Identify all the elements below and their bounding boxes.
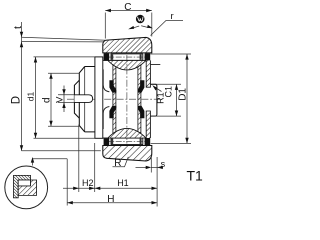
svg-text:H2: H2 [82,178,94,188]
ring corner hatched [18,180,36,195]
seal rubber zigzag [14,175,31,197]
dimension V [55,86,75,113]
svg-text:D1: D1 [177,88,188,101]
taper line lower [22,41,104,43]
inner ring right wall [138,65,141,134]
svg-text:D: D [10,96,22,104]
dimension d [41,73,79,126]
seal lip streak top-right [138,80,145,92]
seal bottom-left [104,138,110,146]
t dimension [12,22,24,52]
seal lip streak bottom-left [109,106,116,118]
label R with leader [113,157,129,169]
svg-text:t: t [12,26,24,29]
horizontal axis centre line [67,98,160,100]
svg-text:C: C [124,2,131,13]
dimension H [67,194,157,205]
inner ring lower raceway [108,128,146,138]
needle roller top [105,54,149,60]
dimension D [10,52,101,151]
extension lines H row [66,159,68,206]
vertical centre line [126,55,128,144]
dimension d1 [25,57,95,138]
shoulder line right [151,64,161,66]
label r with leader [151,11,184,36]
lubrication arrows [128,25,153,30]
svg-text:T1: T1 [187,168,204,184]
dimension D1 [150,54,191,143]
raceway edge lines [103,60,108,138]
seal carrier J top-left [103,69,109,91]
seal lip streak bottom-right [138,106,145,118]
right rib washer bottom [146,111,150,138]
grease hole V [74,95,92,103]
outer ring top dome [103,37,152,53]
dimension s [136,156,166,173]
label R1 with leader [152,85,165,104]
detail callout arrow [31,157,67,166]
svg-text:H: H [107,194,114,205]
svg-text:s: s [161,159,166,169]
svg-text:V: V [55,96,66,103]
taper line upper [22,37,107,40]
svg-text:H1: H1 [117,178,129,188]
outer ring bottom dome [103,146,152,162]
inner ring upper raceway (sagging arc region) [108,60,146,70]
cylinder d [85,67,95,132]
svg-text:C1: C1 [163,86,173,98]
inner ring left wall [113,65,116,134]
seal top-left [104,53,110,61]
svg-text:d1: d1 [25,91,35,101]
seal lip streak top-left [109,80,116,92]
seal top-right [145,53,151,61]
svg-text:d: d [41,97,52,103]
washer insert [18,180,30,186]
dimension H1 [95,178,157,190]
right rib washer top [146,60,150,87]
cone steps [74,67,84,132]
dimension C1 [152,84,182,116]
dimension C [105,2,152,38]
dimension H2 [63,178,95,190]
grease nipple symbol [136,15,145,24]
seal carrier J bottom-left [103,107,109,129]
flange washer [95,57,103,138]
stud hub right [151,84,157,116]
seal bottom-right [145,138,151,146]
needle roller bottom [105,138,149,144]
